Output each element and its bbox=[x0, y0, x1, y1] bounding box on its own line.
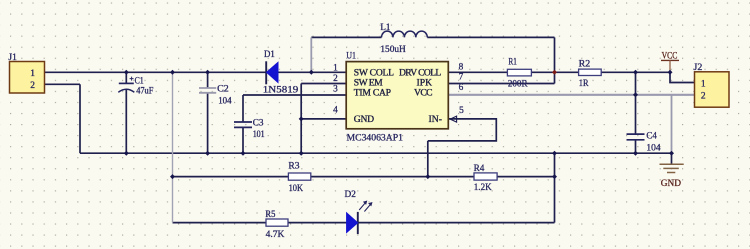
U1 pin5 input arrow bbox=[450, 116, 456, 122]
junction right vertical ground rail bbox=[552, 151, 557, 156]
wire C4 bottom vertical bbox=[635, 140, 637, 153]
svg-text:1N5819: 1N5819 bbox=[263, 86, 299, 96]
wire pin7 vertical to node bbox=[554, 72, 556, 83]
wire VCC node down to J2 pin1 bbox=[670, 72, 695, 82]
junction pin4 node bbox=[299, 116, 304, 121]
junction C1 top bbox=[124, 70, 129, 75]
wire grey feedback vertical x=172.5 bbox=[172, 72, 174, 222]
capacitor C4 bbox=[627, 131, 661, 153]
capacitor C1 bbox=[118, 77, 153, 97]
svg-text:U1: U1 bbox=[346, 51, 356, 61]
capacitor C2 bbox=[199, 85, 232, 107]
wire divider rail right segment bbox=[497, 176, 554, 178]
svg-text:5: 5 bbox=[459, 106, 464, 116]
svg-text:10K: 10K bbox=[289, 184, 304, 194]
svg-text:1: 1 bbox=[333, 63, 338, 73]
capacitor C3 bbox=[234, 119, 265, 141]
wire L1 top left horizontal bbox=[311, 36, 381, 38]
wire U1 pin8 to R1 bbox=[448, 71, 507, 73]
svg-text:R2: R2 bbox=[579, 59, 591, 69]
wire U1 pin2 stub bbox=[301, 83, 346, 85]
connector J1 bbox=[8, 53, 44, 93]
wire R2 to VCC node bbox=[601, 71, 670, 73]
svg-text:J2: J2 bbox=[694, 63, 703, 73]
wire C2 bottom vertical bbox=[207, 93, 209, 153]
svg-text:GND: GND bbox=[354, 114, 374, 125]
svg-text:C4: C4 bbox=[646, 131, 657, 141]
svg-text:4: 4 bbox=[333, 105, 338, 115]
resistor R1 200R bbox=[507, 58, 531, 90]
svg-text:GND: GND bbox=[661, 179, 681, 189]
svg-text:R4: R4 bbox=[474, 164, 485, 174]
wire R1 to R2 bbox=[531, 71, 578, 73]
svg-text:IN-: IN- bbox=[429, 114, 442, 125]
svg-text:VCC: VCC bbox=[414, 88, 433, 99]
junction L1 left node bbox=[309, 70, 314, 75]
svg-text:101: 101 bbox=[253, 130, 265, 140]
svg-text:1.2K: 1.2K bbox=[474, 183, 492, 193]
svg-text:2: 2 bbox=[701, 92, 706, 102]
resistor R5 4.7K bbox=[265, 210, 288, 240]
junction feedback vertical top bbox=[170, 70, 175, 75]
svg-text:8: 8 bbox=[459, 62, 464, 72]
svg-text:3: 3 bbox=[333, 84, 338, 94]
wire bottom rail left of R5 bbox=[173, 222, 267, 224]
wire J1 pin1 to D1 cathode (top rail left) bbox=[45, 71, 267, 73]
svg-text:1R: 1R bbox=[579, 79, 589, 89]
wire divider rail left segment bbox=[173, 176, 289, 178]
wire U1 pin4 stub bbox=[301, 118, 346, 120]
junction C1 bottom bbox=[124, 151, 129, 156]
junction GND stem bbox=[669, 151, 674, 156]
junction C4 bottom bbox=[633, 151, 638, 156]
junction VCC node bbox=[668, 70, 673, 75]
wire C1 top vertical bbox=[125, 72, 127, 83]
junction C4 pin6 crossing bbox=[633, 92, 638, 97]
wire C2 top vertical bbox=[207, 72, 209, 87]
svg-text:150uH: 150uH bbox=[380, 45, 406, 55]
wire J1 pin2 horizontal bbox=[45, 83, 81, 85]
wire D1 anode to U1 pin1 (top rail right) bbox=[278, 71, 346, 73]
wire R5 to D2 bbox=[288, 222, 346, 224]
inductor L1 150uH bbox=[380, 23, 427, 55]
wire GND rail horizontal bbox=[80, 152, 672, 154]
svg-text:R5: R5 bbox=[265, 210, 275, 220]
resistor R4 1.2K bbox=[474, 164, 498, 193]
junction output node maroon bbox=[552, 70, 557, 75]
wire pin2-pin4-ground vertical bbox=[300, 84, 302, 154]
svg-text:R1: R1 bbox=[508, 58, 517, 68]
svg-text:2: 2 bbox=[30, 81, 35, 91]
wire U1 pin7 horizontal bbox=[448, 83, 554, 85]
junction divider right bbox=[552, 174, 557, 179]
wire C1 bottom vertical bbox=[125, 90, 127, 153]
svg-text:C1: C1 bbox=[135, 77, 144, 87]
wire C3 top vertical bbox=[242, 95, 244, 122]
junction C2 top bbox=[205, 70, 210, 75]
wire grey L1 left vertical bbox=[310, 37, 312, 72]
wire GND symbol stem bbox=[671, 153, 673, 164]
resistor R3 10K bbox=[288, 162, 310, 195]
svg-text:2: 2 bbox=[333, 74, 338, 84]
wire L1 top right horizontal bbox=[427, 36, 554, 38]
svg-text:L1: L1 bbox=[380, 23, 390, 33]
resistor R2 1R bbox=[579, 59, 602, 89]
wire L1 right vertical down bbox=[554, 37, 556, 72]
LED D2 bbox=[345, 190, 373, 234]
power VCC bbox=[661, 51, 679, 72]
wire grey J2 pin2 vertical to GND bbox=[671, 95, 673, 153]
svg-text:104: 104 bbox=[646, 144, 661, 154]
wire C4 top vertical bbox=[635, 72, 637, 134]
svg-text:104: 104 bbox=[218, 96, 232, 106]
connector J2 bbox=[694, 63, 730, 107]
wire right vertical GND-to-divider bbox=[554, 153, 556, 176]
IC U1 MC34063AP1 bbox=[333, 51, 464, 143]
svg-text:4.7K: 4.7K bbox=[266, 230, 285, 240]
svg-text:6: 6 bbox=[459, 83, 464, 93]
wire right vertical divider-to-bottom bbox=[554, 177, 556, 223]
wire divider rail middle segment bbox=[311, 176, 474, 178]
svg-text:TIM CAP: TIM CAP bbox=[354, 88, 391, 99]
junction C3 bottom bbox=[241, 151, 246, 156]
svg-text:D2: D2 bbox=[345, 190, 357, 200]
wire C3 bottom vertical bbox=[242, 128, 244, 154]
svg-text:C2: C2 bbox=[217, 85, 229, 95]
junction C2 bottom bbox=[205, 151, 210, 156]
junction C4 top bbox=[633, 70, 638, 75]
svg-text:J1: J1 bbox=[8, 53, 17, 63]
ground GND bbox=[660, 164, 684, 189]
junction pin2-4 ground bbox=[299, 151, 304, 156]
svg-text:C3: C3 bbox=[253, 119, 264, 129]
wire grey U1 pin6 VCC line to J2 pin2 bbox=[448, 94, 694, 96]
wire U1 pin5 feedback path bbox=[428, 119, 497, 141]
svg-text:7: 7 bbox=[459, 72, 464, 82]
svg-text:1: 1 bbox=[30, 69, 35, 79]
wire U1 pin3 to C3 horizontal bbox=[243, 94, 346, 96]
wire feedback vertical to divider rail bbox=[427, 141, 429, 177]
diode D1 1N5819 bbox=[263, 50, 299, 96]
svg-text:200R: 200R bbox=[508, 79, 528, 89]
svg-text:D1: D1 bbox=[264, 50, 275, 60]
junction divider left bbox=[170, 174, 175, 179]
svg-text:47uF: 47uF bbox=[136, 86, 153, 96]
wire D2 to right corner bbox=[358, 222, 555, 224]
svg-text:1: 1 bbox=[701, 80, 706, 90]
svg-text:R3: R3 bbox=[288, 162, 300, 172]
wire J1 pin2 vertical down bbox=[79, 84, 81, 153]
junction feedback divider node bbox=[425, 174, 430, 179]
svg-text:MC34063AP1: MC34063AP1 bbox=[347, 133, 404, 144]
